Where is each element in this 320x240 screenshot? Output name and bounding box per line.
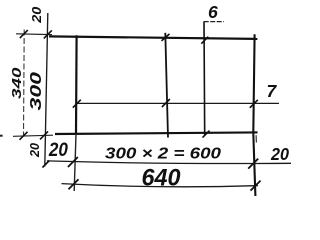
svg-text:20: 20 — [48, 139, 68, 161]
svg-text:340: 340 — [9, 66, 24, 99]
svg-text:6: 6 — [208, 2, 218, 22]
svg-text:20: 20 — [27, 142, 42, 158]
svg-text:20: 20 — [29, 6, 44, 24]
svg-text:300: 300 — [28, 72, 45, 111]
svg-text:20: 20 — [270, 144, 289, 164]
svg-text:300 × 2 = 600: 300 × 2 = 600 — [105, 146, 221, 163]
svg-text:7: 7 — [267, 81, 278, 101]
svg-text:640: 640 — [142, 164, 182, 191]
